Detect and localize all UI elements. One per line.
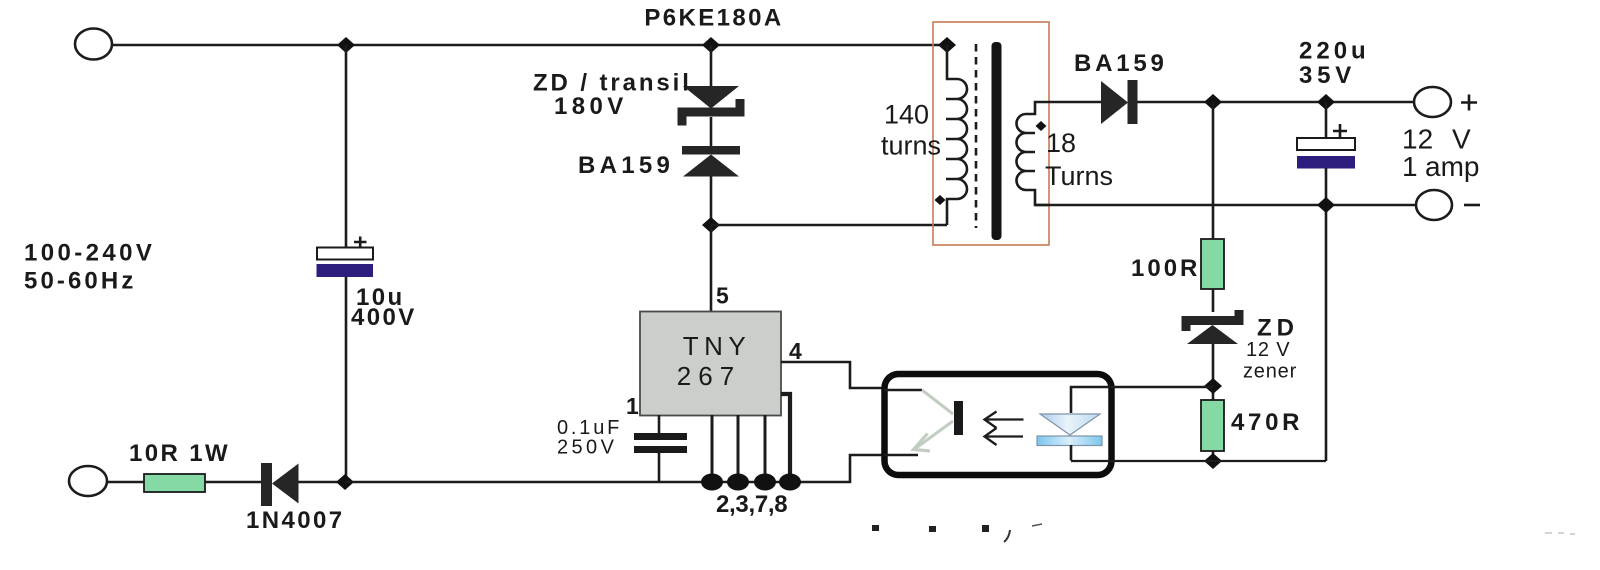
wire 100R branch upper [1212, 102, 1215, 240]
optocoupler U2 body [885, 374, 1112, 475]
diode D2 BA159 (clamp) bar [682, 146, 740, 155]
svg-text:12: 12 [1402, 124, 1433, 155]
capacitor C1 10u/400V top plate [317, 248, 373, 260]
node junction output rail / 220u cap [1317, 94, 1335, 110]
node dot pin 7 [754, 474, 776, 491]
capacitor C3 220u/35V top plate [1297, 138, 1355, 150]
wire pin 5 drain [710, 225, 713, 312]
label plus sign [1461, 95, 1477, 111]
svg-text:35V: 35V [1299, 62, 1356, 89]
svg-text:12 V: 12 V [1246, 339, 1290, 361]
wire top rail L input to transformer primary [112, 44, 947, 47]
output terminal minus [1416, 190, 1452, 220]
opto phototransistor bottom wire [1070, 445, 1073, 461]
svg-text:470R: 470R [1231, 409, 1303, 436]
wire bulk cap branch upper [345, 45, 348, 248]
secondary phase dot [1036, 121, 1047, 131]
diode D2 BA159 (clamp) triangle [683, 155, 739, 177]
wire clamp branch [710, 45, 713, 87]
wire zener to node [1212, 344, 1215, 400]
wire between zener and diode [710, 117, 713, 147]
node dot pin 2 [701, 474, 723, 491]
IC U1 TNY267 body [640, 312, 781, 416]
node dot pin 3 [727, 474, 749, 491]
wire 470R to bottom feedback rail [1212, 451, 1215, 461]
opto LED anode stub [884, 389, 922, 392]
wire diode to bottom node [298, 481, 345, 484]
zener Z1 ZD/transil 180V triangle [683, 86, 739, 109]
svg-text:180V: 180V [554, 93, 628, 120]
capacitor C3 220u/35V plus sign [1333, 124, 1347, 138]
svg-text:zener: zener [1243, 361, 1297, 383]
opto LED chevron upper [922, 390, 953, 414]
wire pin group side exit [781, 394, 790, 482]
transformer isolation dashed line [975, 44, 978, 228]
opto LED arrow head [914, 434, 931, 452]
wire 100R to zener [1212, 289, 1215, 312]
capacitor C1 10u/400V bottom plate [317, 264, 374, 277]
wire bulk cap branch lower [345, 276, 348, 482]
wire 0.1uF to bottom rail [658, 453, 661, 482]
input terminal L (top left) [75, 29, 112, 60]
wire 220u cap branch upper [1325, 102, 1328, 139]
node junction bottom rail / bulk cap [336, 474, 354, 490]
watermark tick [1032, 524, 1042, 526]
opto LED arrow shaft [916, 421, 953, 448]
wire clamp to primary-bottom node [710, 176, 713, 225]
wire secondary bottom minus rail [1035, 204, 1416, 207]
wire resistor to diode [205, 481, 261, 484]
node junction minus rail / cap branch [1317, 197, 1335, 213]
svg-text:250V: 250V [557, 437, 617, 459]
capacitor C3 220u/35V bottom plate [1297, 156, 1355, 169]
wire pin 4 to optocoupler [781, 362, 884, 388]
svg-text:BA159: BA159 [578, 152, 674, 179]
primary phase dot [935, 195, 946, 205]
node junction 470R / feedback rail [1204, 453, 1222, 469]
node dot pin 8 [779, 474, 801, 491]
zener Z2 12V triangle [1187, 325, 1238, 344]
svg-text:267: 267 [677, 361, 741, 391]
transformer primary winding 140 turns [946, 45, 967, 225]
node junction top rail / clamp [702, 37, 720, 53]
resistor R3 470R [1201, 400, 1224, 451]
svg-text:P6KE180A: P6KE180A [644, 5, 783, 32]
node junction top rail / primary top [938, 37, 956, 53]
wire pin 2 [711, 415, 714, 482]
opto LED cathode stub [884, 454, 918, 457]
svg-text:50-60Hz: 50-60Hz [24, 268, 136, 295]
svg-text:TNY: TNY [683, 331, 752, 361]
capacitor C2 0.1uF bottom plate [634, 446, 687, 453]
diode D1 1N4007 triangle [272, 464, 299, 504]
wire diode to plus terminal [1137, 101, 1414, 104]
input terminal N (bottom left) [69, 466, 107, 496]
wire secondary top to diode [1049, 101, 1101, 104]
node junction zener / opto / 470R [1204, 378, 1222, 394]
transformer core bar [992, 42, 1002, 240]
svg-text:1N4007: 1N4007 [246, 507, 344, 534]
opto photodiode bar [1037, 436, 1102, 446]
transformer T1 bobbin outline (orange box) [933, 22, 1049, 245]
wire terminal N to resistor [107, 481, 144, 484]
svg-text:10R 1W: 10R 1W [129, 440, 230, 467]
wire pin 7 [764, 415, 767, 482]
diode D3 BA159 (output) triangle [1101, 81, 1128, 124]
capacitor C1 10u/400V plus sign [354, 237, 367, 249]
label minus sign [1464, 204, 1480, 207]
svg-text:BA159: BA159 [1074, 50, 1168, 77]
watermark dot 3 [982, 525, 989, 532]
watermark dot 1 [872, 525, 879, 531]
svg-text:1: 1 [1402, 151, 1418, 182]
svg-text:1: 1 [626, 393, 639, 419]
svg-text:400V: 400V [351, 304, 417, 331]
wire 220u cap branch lower down to feedback rail [1325, 168, 1328, 461]
zener Z2 12V bar [1186, 310, 1239, 331]
node junction output rail / 100R branch [1204, 94, 1222, 110]
diode D1 1N4007 cathode bar [261, 463, 272, 506]
node junction top rail / bulk cap branch [337, 37, 355, 53]
svg-text:turns: turns [881, 131, 941, 161]
transformer secondary winding 18 turns [1017, 102, 1050, 205]
opto light arrow 1 [985, 412, 1024, 429]
svg-text:100R: 100R [1131, 255, 1200, 282]
zener Z1 ZD/transil 180V bar [682, 99, 740, 126]
svg-text:V: V [1452, 124, 1471, 155]
svg-text:2,3,7,8: 2,3,7,8 [716, 491, 787, 518]
wire primary bottom [711, 224, 947, 227]
wire pin 1 to 0.1uF cap [658, 415, 661, 434]
svg-text:amp: amp [1425, 151, 1479, 182]
svg-text:ZD: ZD [1257, 315, 1299, 342]
capacitor C2 0.1uF top plate [634, 433, 687, 440]
wire pin 3 [737, 415, 740, 482]
svg-text:Turns: Turns [1045, 161, 1113, 191]
svg-text:220u: 220u [1299, 38, 1370, 65]
watermark comma [1004, 530, 1010, 542]
diode D3 BA159 (output) bar [1128, 80, 1138, 124]
resistor R1 10R 1W [144, 474, 205, 492]
output terminal plus [1414, 87, 1451, 117]
svg-text:100-240V: 100-240V [24, 240, 155, 267]
wire feedback bottom rail [1071, 460, 1326, 462]
node junction clamp / primary bottom / pin5 [702, 217, 720, 233]
opto light arrow 2 [985, 428, 1024, 445]
opto LED bar [954, 401, 963, 435]
wire bottom rail to optocoupler [345, 455, 884, 482]
svg-text:140: 140 [884, 100, 929, 130]
opto phototransistor top wire [1071, 387, 1213, 413]
svg-text:18: 18 [1046, 128, 1076, 158]
watermark dot 2 [929, 526, 936, 532]
resistor R2 100R [1201, 239, 1224, 289]
svg-text:4: 4 [789, 338, 802, 364]
svg-text:5: 5 [716, 283, 729, 309]
watermark dashes bottom right [1545, 533, 1575, 534]
